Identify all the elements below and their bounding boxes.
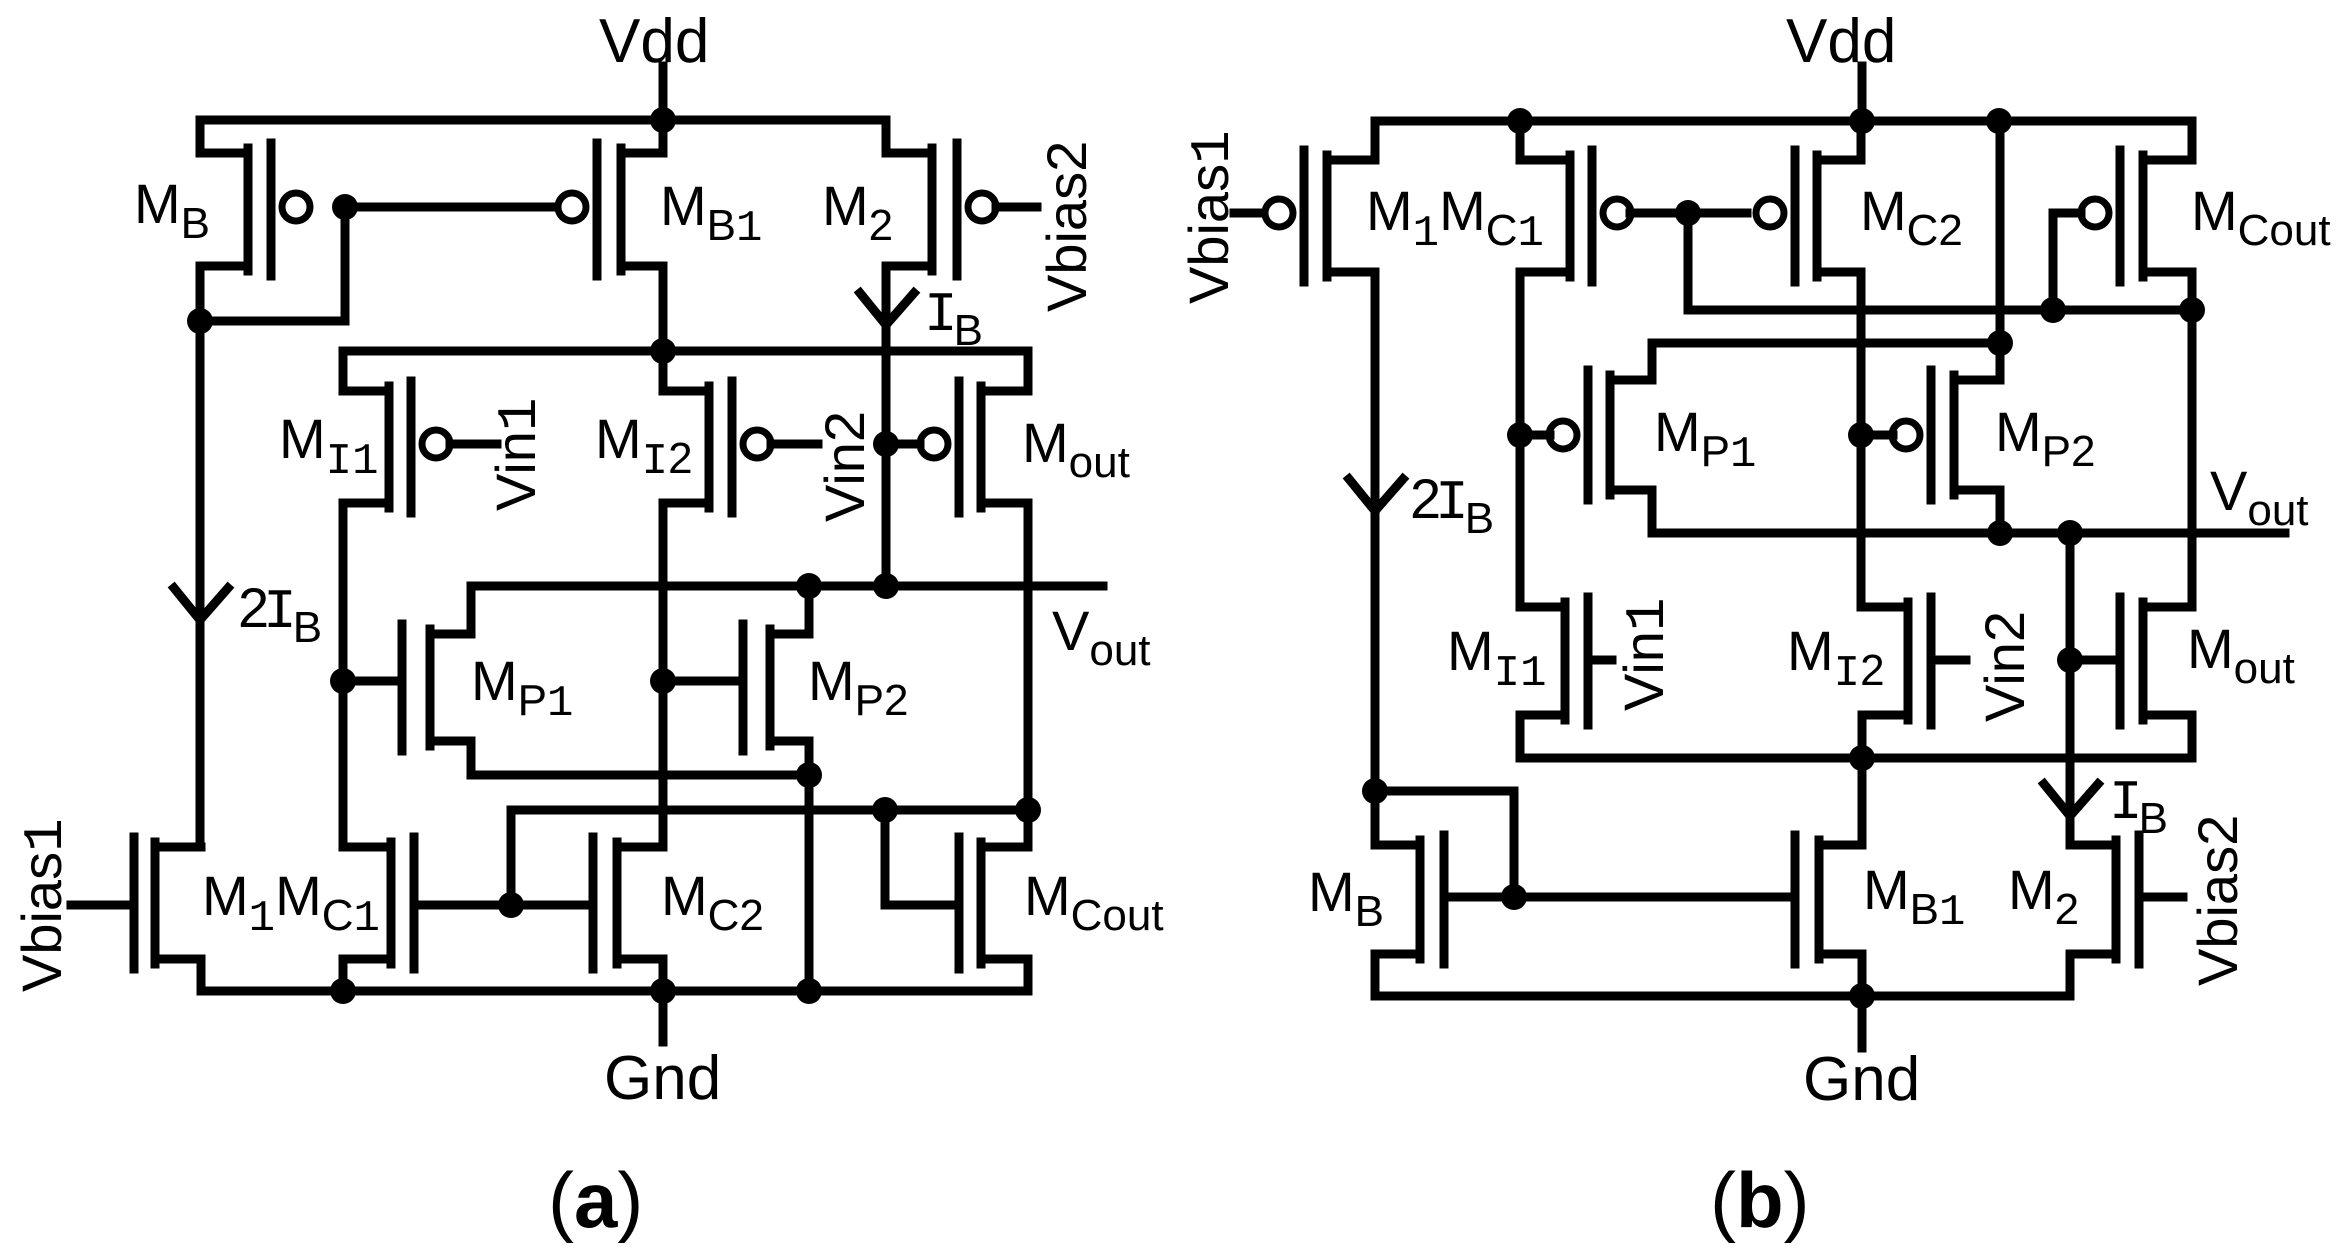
- wire MP1-MP2 source line (b): [1652, 343, 2000, 380]
- label IB (a): [924, 283, 983, 355]
- wire IB line (b): [2066, 533, 2075, 845]
- wire MP1 gate lead (a): [343, 677, 398, 686]
- transistor M1 (NMOS): [134, 837, 201, 969]
- wire Mout drain (a): [1024, 503, 1033, 810]
- wire Vin2 gate lead (a): [771, 440, 818, 449]
- wire MB1 source: [659, 120, 668, 153]
- svg-text:Vdd: Vdd: [1786, 7, 1896, 76]
- node MP source junction (a): [796, 762, 822, 788]
- wire MC1-MC2 gate run (b): [1630, 209, 1747, 218]
- transistor MP2 (PMOS) (b): [1892, 370, 2000, 500]
- net Vin2 label (b): [1973, 611, 2036, 722]
- transistor MC2 (NMOS): [593, 837, 663, 969]
- transistor MI1 (PMOS): [343, 381, 450, 513]
- wire Mout gate lead (a): [886, 440, 920, 449]
- wire MC2 source (a): [659, 959, 668, 991]
- node MB1 source junction (b): [1849, 983, 1875, 1009]
- node MP2 gate junction (a): [650, 668, 676, 694]
- caption (b): [1710, 1156, 1810, 1244]
- node MB drain junction (b): [1362, 778, 1388, 804]
- transistor Mout label (b): [2187, 617, 2295, 693]
- wire MB source (b): [1371, 954, 1380, 996]
- wire cascode-gate bus (a): [511, 810, 1028, 905]
- wire MP1 gate lead (b): [1520, 431, 1550, 440]
- transistor MI2 label: [595, 407, 693, 487]
- current arrow 2IB (a): [174, 588, 228, 620]
- wire MC2 drain (b): [1857, 272, 1866, 607]
- wire Vout drop to Mout (b): [2188, 310, 2197, 607]
- node MP source junction (b): [1987, 330, 2013, 356]
- wire MP2 gate lead (b): [1861, 431, 1893, 440]
- wire MCout drain (a): [1024, 810, 1033, 847]
- wire MC1 source (a): [339, 959, 348, 991]
- wire MP2 drain (a): [805, 586, 814, 634]
- wire MC1-MC2 gate run (a): [418, 901, 589, 910]
- wire Vdd stub (a): [659, 66, 668, 120]
- transistor MC2 label (b): [1860, 179, 1963, 255]
- transistor M1 MC1 label (b): [1366, 179, 1544, 259]
- wire MCout gate lead (a): [885, 810, 955, 905]
- wire MB drain segment: [196, 266, 205, 321]
- transistor MP1 (PMOS) (b): [1549, 370, 1652, 500]
- svg-text:Vbias1: Vbias1: [10, 818, 78, 992]
- transistor Mout (PMOS): [920, 381, 1028, 513]
- wire 2IB tail line (b): [1371, 272, 1380, 791]
- ground Gnd label (a): [604, 1044, 721, 1113]
- node cascode-gate left junction (a): [498, 892, 524, 918]
- wire MC2 source (b): [1857, 121, 1866, 160]
- ground Gnd label (b): [1803, 1045, 1920, 1114]
- svg-text:Vbias2: Vbias2: [1035, 141, 1098, 312]
- svg-text:Vin2: Vin2: [1973, 611, 2036, 722]
- transistor MCout label: [1024, 864, 1164, 940]
- node MP source rail junction (b): [1986, 108, 2012, 134]
- label 2IB (b): [1410, 467, 1494, 543]
- transistor MP1 (NMOS): [402, 624, 471, 751]
- node Vdd junction (a): [650, 107, 676, 133]
- transistor MI2 (NMOS) (b): [1862, 597, 1931, 725]
- net Vbias2 label (a): [1035, 141, 1098, 312]
- caption (a): [548, 1156, 643, 1244]
- transistor MCout label (b): [2191, 179, 2331, 255]
- transistor MI1 label (b): [1447, 619, 1546, 699]
- wire MB gate-drain tie (b): [1375, 791, 1514, 897]
- transistor MCout (NMOS): [959, 837, 1028, 969]
- wire MCout drain (b): [2188, 272, 2197, 310]
- wire Vbias2 gate lead (b): [2143, 893, 2183, 902]
- svg-text:Gnd: Gnd: [604, 1044, 721, 1113]
- node MB drain junction: [187, 308, 213, 334]
- wire Vbias1 gate lead (a): [71, 901, 130, 910]
- wire Mout source (b): [2188, 715, 2197, 758]
- svg-text:Vdd: Vdd: [599, 7, 709, 76]
- wire MI1 drain (a): [339, 503, 348, 847]
- transistor M1 MC1 label: [202, 864, 380, 944]
- wire MP1-MP2 source line (a): [471, 741, 809, 775]
- transistor MP2 label (b): [1995, 400, 2095, 476]
- wire MP2 gate lead (a): [663, 677, 739, 686]
- wire Vbias1 gate lead (b): [1234, 209, 1262, 218]
- wire Vbias2 gate lead (a): [996, 203, 1037, 212]
- node MCout gate junction (b): [2040, 297, 2066, 323]
- wire ground rail (b): [1375, 992, 2070, 1001]
- wire Gnd stub (a): [659, 991, 668, 1042]
- node cascode-gate junction (b): [1675, 200, 1701, 226]
- transistor MB label (b): [1308, 860, 1384, 936]
- transistor MC1 (NMOS): [343, 837, 414, 969]
- node MI2 source junction (a): [650, 338, 676, 364]
- transistor MB1 label (b): [1863, 858, 1965, 938]
- transistor MB1 (NMOS) (b): [1795, 835, 1862, 964]
- transistor MP1 label: [471, 649, 573, 729]
- wire MP1 drain (a): [467, 586, 476, 634]
- transistor M1 (PMOS) (b): [1265, 150, 1375, 282]
- net Vbias1 label (b): [1177, 130, 1245, 304]
- transistor Mout label: [1022, 411, 1130, 487]
- transistor MC1 (PMOS) (b): [1520, 150, 1631, 282]
- wire Mout gate lead (b): [2076, 656, 2112, 665]
- net Vin2 label (a): [813, 411, 876, 522]
- transistor MB1 (PMOS): [558, 143, 663, 276]
- net Vin1 label (b): [1612, 597, 1680, 711]
- net Vdd (a) label: [599, 7, 709, 76]
- net Vbias2 label (b): [2186, 815, 2249, 986]
- node MP1 gate junction (a): [330, 668, 356, 694]
- wire Vdd stub (b): [1858, 66, 1867, 121]
- transistor MI2 label (b): [1787, 619, 1885, 699]
- node MC2 source junction (a): [650, 978, 676, 1004]
- label 2IB (a): [238, 576, 322, 652]
- wire MB-MB1 gate run: [345, 203, 558, 212]
- wire Vout line (a): [471, 582, 1103, 591]
- transistor M2 label (b): [2008, 858, 2079, 934]
- wire Vdd rail (b): [1375, 121, 2192, 160]
- wire Vin1 gate lead (b): [1592, 656, 1612, 665]
- node MB gate junction (b): [1501, 884, 1527, 910]
- wire MB gate-drain tie: [200, 207, 345, 321]
- transistor MB (NMOS) (b): [1375, 835, 1444, 964]
- svg-text:Vin1: Vin1: [484, 397, 552, 511]
- wire MP2 drain (b): [1996, 490, 2005, 533]
- node MP source ground junction (a): [796, 978, 822, 1004]
- svg-text:Vbias1: Vbias1: [1177, 130, 1245, 304]
- wire Vdd rail (a): [200, 120, 886, 153]
- node MC1 source junction (a): [330, 978, 356, 1004]
- current arrow IB (a): [860, 293, 914, 325]
- wire MP1 drain (b): [1648, 490, 1657, 533]
- transistor MC2 label: [661, 864, 764, 940]
- wire MB1 drain rise (b): [1858, 758, 1867, 845]
- wire MB1 drain: [659, 266, 668, 351]
- wire MC1 source (b): [1516, 121, 1525, 160]
- net Vout label (a): [1052, 599, 1151, 675]
- transistor M2 (NMOS) (b): [2070, 835, 2139, 964]
- svg-text:Vin1: Vin1: [1612, 597, 1680, 711]
- transistor MCout (PMOS) (b): [2081, 150, 2192, 282]
- node MP2 drain junction (b): [1987, 520, 2013, 546]
- transistor MP2 (NMOS): [743, 624, 809, 751]
- wire MI2 source (a): [659, 351, 668, 391]
- node MP2 drain junction (a): [796, 573, 822, 599]
- transistor MC2 (PMOS) (b): [1756, 150, 1861, 282]
- wire M2 source (b): [2066, 954, 2075, 996]
- wire MB-MB1 gate run (b): [1448, 893, 1791, 902]
- wire ground rail (a): [201, 959, 1028, 991]
- wire MP source ground drop (a): [805, 741, 814, 991]
- node MCout gate junction (a): [872, 797, 898, 823]
- wire cascode-gate bus (b): [1688, 213, 2192, 310]
- transistor M2 (PMOS): [886, 143, 996, 276]
- net Vout label (b): [2210, 459, 2309, 535]
- net Vbias1 label (a): [10, 818, 78, 992]
- svg-text:(b): (b): [1710, 1156, 1810, 1244]
- transistor MI1 (NMOS) (b): [1520, 597, 1588, 725]
- svg-text:(a): (a): [548, 1156, 643, 1244]
- svg-text:Vbias2: Vbias2: [2186, 815, 2249, 986]
- wire Vin1 gate lead (a): [450, 440, 497, 449]
- transistor MB label: [134, 172, 210, 248]
- node IB-Mout gate junction (b): [2057, 647, 2083, 673]
- node MP1 gate junction (b): [1507, 422, 1533, 448]
- wire Gnd stub (b): [1858, 996, 1867, 1048]
- node IB-Vout junction (a): [873, 573, 899, 599]
- svg-text:Gnd: Gnd: [1803, 1045, 1920, 1114]
- node MP2 gate junction (b): [1848, 422, 1874, 448]
- net Vin1 label (a): [484, 397, 552, 511]
- wire MCout gate lead (b): [2053, 213, 2081, 310]
- node IB-Mout gate junction (a): [873, 431, 899, 457]
- label IB (b): [2109, 771, 2168, 843]
- transistor Mout (NMOS) (b): [2120, 597, 2192, 725]
- node MB gate junction: [332, 194, 358, 220]
- transistor MB1 label: [660, 174, 762, 254]
- svg-text:Vin2: Vin2: [813, 411, 876, 522]
- node Vdd junction (b): [1849, 108, 1875, 134]
- wire input-pair source rail (a): [343, 351, 1028, 391]
- wire MI1 source (b): [1516, 715, 1525, 758]
- current arrow IB (b): [2044, 784, 2098, 816]
- wire Vout line (b): [1652, 529, 2285, 538]
- transistor MB (PMOS): [200, 143, 310, 276]
- wire MI2 drain (a): [659, 503, 668, 847]
- node IB-Vout junction (b): [2057, 520, 2083, 546]
- wire MB drain segment (b): [1371, 791, 1380, 845]
- node MC1 source junction (b): [1507, 108, 1533, 134]
- transistor MI2 (PMOS): [663, 381, 771, 513]
- wire MB1 source (b): [1858, 954, 1867, 996]
- transistor MP1 label (b): [1654, 400, 1756, 480]
- wire M2 drain / IB line (a): [882, 266, 891, 586]
- wire MI2 source (b): [1858, 715, 1867, 758]
- current arrow 2IB (b): [1349, 479, 1403, 511]
- wire input-pair source rail (b): [1520, 754, 2192, 763]
- node Vout-MCout junction (b): [2179, 297, 2205, 323]
- node MI2 source junction (b): [1849, 745, 1875, 771]
- wire MP source Vdd rise (b): [1996, 121, 2005, 380]
- wire 2IB tail line (a): [196, 321, 205, 847]
- wire MC1 drain (b): [1516, 272, 1525, 607]
- net Vdd (b) label: [1786, 7, 1896, 76]
- transistor MI1 label: [279, 407, 378, 487]
- transistor M2 label: [822, 174, 893, 250]
- transistor MP2 label: [808, 649, 908, 725]
- wire Vin2 gate lead (b): [1935, 656, 1966, 665]
- node Vout-MCout junction (a): [1015, 797, 1041, 823]
